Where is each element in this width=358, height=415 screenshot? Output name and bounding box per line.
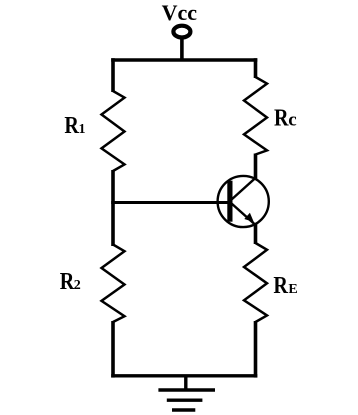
resistor Rc — [244, 77, 267, 155]
wire: top rail — [111, 58, 257, 62]
resistor R1 — [102, 91, 125, 171]
transistor Q1 — [218, 176, 269, 227]
ground bar 2 — [167, 399, 203, 402]
svg-text:2: 2 — [74, 278, 81, 293]
transistor emitter line — [231, 203, 256, 226]
svg-text:c: c — [288, 110, 296, 131]
Vcc terminal circle — [173, 26, 190, 38]
ground — [158, 376, 215, 410]
wire: emitter vertical — [254, 224, 258, 244]
svg-text:R: R — [64, 113, 79, 139]
wire: top-left vertical — [111, 58, 115, 92]
wire: left bottom vertical — [111, 321, 115, 378]
wire: right bottom vertical — [254, 321, 258, 378]
svg-text:R: R — [273, 273, 288, 299]
resistor RE — [244, 243, 267, 322]
svg-text:E: E — [288, 282, 297, 297]
wire: left middle vertical — [111, 170, 115, 246]
svg-text:1: 1 — [79, 122, 86, 137]
ground bar 1 — [158, 388, 215, 391]
wire: Vcc stub — [180, 38, 184, 61]
ground stub — [184, 376, 187, 390]
transistor body circle — [218, 176, 269, 227]
wire: bottom rail — [111, 374, 257, 377]
svg-text:R: R — [60, 269, 75, 295]
wire: collector vertical — [254, 154, 258, 180]
transistor base bar — [227, 181, 232, 222]
transistor collector line — [231, 178, 256, 201]
resistor R2 — [102, 245, 125, 323]
transistor emitter arrowhead — [244, 213, 254, 222]
svg-text:Vcc: Vcc — [162, 0, 198, 25]
wire: base wire — [111, 201, 228, 204]
ground bar 3 — [172, 408, 195, 411]
svg-text:R: R — [274, 106, 289, 132]
wire: top-right vertical — [254, 58, 258, 78]
